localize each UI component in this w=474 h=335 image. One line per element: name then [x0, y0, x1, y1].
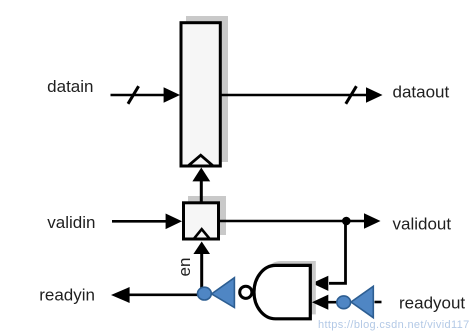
wire datain	[111, 94, 165, 97]
arrowhead validin into U2	[166, 214, 182, 230]
nand gate U3 (mirrored, output bubble on left)	[254, 265, 310, 318]
svg-text:readyin: readyin	[39, 286, 95, 305]
svg-text:readyout: readyout	[399, 294, 465, 313]
bus slash on datain	[128, 86, 139, 104]
register U1 shadow	[186, 16, 228, 162]
register U2 shadow	[188, 196, 226, 235]
wire validout	[220, 220, 364, 223]
gate U3 shadow	[260, 261, 316, 314]
junction node validout	[342, 217, 351, 226]
clock chevron of U1	[189, 155, 213, 165]
arrowhead gate lower input	[312, 295, 328, 310]
wire validin	[112, 220, 167, 223]
svg-text:dataout: dataout	[393, 83, 450, 102]
junction node readyout (blue dot)	[337, 296, 351, 309]
wire en to U2 clock	[200, 253, 203, 294]
svg-text:validout: validout	[393, 214, 452, 233]
wire valid-to-data connector	[200, 180, 203, 203]
wire gate lower input	[328, 301, 338, 304]
bus slash on dataout	[346, 86, 357, 104]
svg-text:validin: validin	[47, 213, 95, 232]
buffer B1 (blue triangle, points left)	[212, 278, 235, 308]
wire readyin	[129, 293, 200, 296]
bubble of U3	[240, 286, 252, 298]
svg-text:en: en	[175, 258, 194, 277]
arrowhead gate upper input	[312, 276, 328, 291]
arrowhead readyin (points left)	[111, 287, 130, 303]
buffer B2 (blue triangle, points left)	[351, 286, 373, 317]
register U2 (valid register)	[184, 203, 219, 239]
arrowhead validout	[364, 213, 381, 229]
svg-text:datain: datain	[47, 77, 93, 96]
arrowhead up into U2 clock area	[193, 242, 210, 255]
wire dataout	[221, 94, 366, 97]
junction node en (blue dot)	[198, 287, 212, 300]
svg-text:https://blog.csdn.net/vivid117: https://blog.csdn.net/vivid117	[318, 319, 470, 331]
wire feedback from validout node to gate upper input	[329, 221, 346, 283]
arrowhead datain into U1	[164, 87, 180, 103]
wire readyout stub	[375, 301, 382, 304]
arrowhead dataout	[366, 87, 383, 103]
clock chevron of U2	[194, 229, 211, 239]
register U1 (data register)	[181, 23, 220, 166]
arrowhead up into U1 clock area	[192, 168, 210, 182]
